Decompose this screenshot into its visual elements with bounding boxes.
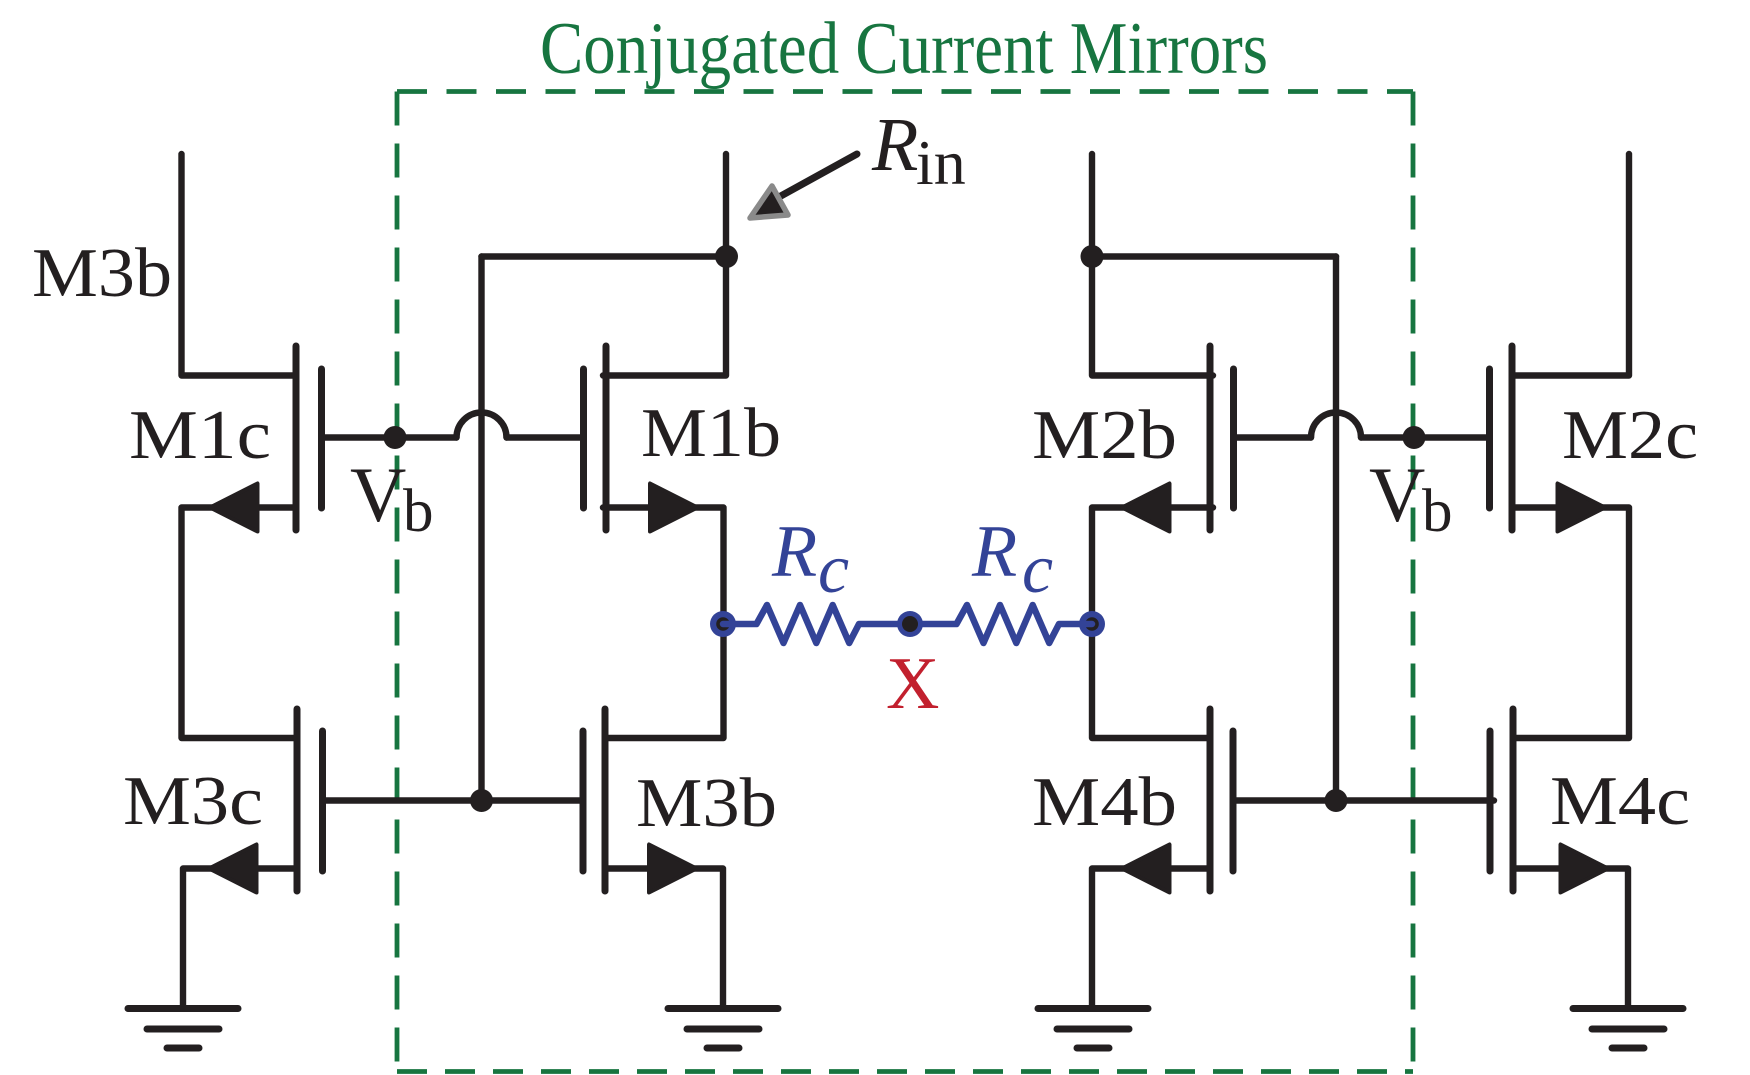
wire: top horizontal from Rin2 node to vertical net xyxy=(1092,253,1336,259)
svg-text:R: R xyxy=(971,511,1017,593)
junction dot: Vb left xyxy=(384,426,407,449)
transistor M4b xyxy=(1207,709,1214,891)
junction dot: Rin node xyxy=(715,245,738,268)
wire: Rin stub and M1b drain xyxy=(603,154,726,376)
wire: M4c source down to ground xyxy=(1516,869,1628,1006)
wire: stub and M2b drain xyxy=(1092,154,1213,376)
wire hop: gate wire over vertical net xyxy=(457,413,507,438)
ground (M4c) xyxy=(1573,1005,1683,1012)
arrow: M2b source (points left) xyxy=(1122,484,1170,532)
svg-text:M4c: M4c xyxy=(1550,763,1690,840)
svg-text:V: V xyxy=(1369,451,1425,538)
junction dot: right top node xyxy=(1081,245,1104,268)
wire: M1c-M1b gate wire left part xyxy=(322,434,457,440)
svg-text:M1b: M1b xyxy=(641,395,781,472)
wire hop: gate wire over vertical net right xyxy=(1311,413,1361,438)
resistor Rc right xyxy=(910,605,1092,643)
transistor M1b xyxy=(603,346,610,530)
dashed boundary box: Conjugated Current Mirrors xyxy=(397,92,1413,1072)
arrow: M4b source (points left) xyxy=(1122,845,1170,893)
arrow: M1b source (points right) xyxy=(650,484,698,532)
node terminal: left Rc end xyxy=(710,611,736,637)
transistor M4c xyxy=(1510,709,1517,891)
junction dot: M3c/M3b gate net xyxy=(470,789,493,812)
node X: center tap xyxy=(897,611,923,637)
junction dot: M4b/M4c gate net xyxy=(1325,789,1348,812)
node terminal: right Rc end xyxy=(1079,611,1105,637)
annotation arrow for Rin xyxy=(750,154,857,218)
ground (M3b) xyxy=(668,1005,778,1012)
transistor M2b xyxy=(1207,346,1214,530)
transistor M2c xyxy=(1509,346,1516,530)
svg-text:M3b: M3b xyxy=(636,765,777,842)
arrow: M2c source (points right) xyxy=(1558,484,1606,532)
wire: M2b-M2c gate wire right part xyxy=(1361,434,1490,440)
svg-text:c: c xyxy=(818,531,849,608)
wire: M2b source down through Rc right node to M4b drain xyxy=(1092,508,1213,739)
wire: M1b source down through Rc left node to M3b drain xyxy=(603,508,724,739)
arrow: M3c source (points left) xyxy=(209,845,257,893)
svg-text:R: R xyxy=(871,103,918,187)
wire: vertical net from top node to M4b/M4c gates xyxy=(1333,257,1339,801)
wire: right column drain stub of M2c xyxy=(1515,154,1629,376)
label Vb left xyxy=(350,451,434,545)
wire: M3b source down to ground xyxy=(608,869,723,1006)
transistor labels xyxy=(32,235,1698,842)
wire: M2b-M2c gate wire left part xyxy=(1234,434,1312,440)
svg-text:X: X xyxy=(886,643,939,725)
label Rc right xyxy=(971,511,1053,608)
label Vb right xyxy=(1369,451,1453,545)
label Rc left xyxy=(771,511,849,608)
junction dot: Vb right xyxy=(1403,426,1426,449)
wire: vertical net from top node to M3c/M3b gates xyxy=(478,257,484,801)
transistor M3c xyxy=(294,709,301,891)
svg-text:M2c: M2c xyxy=(1562,397,1698,474)
ground (M4b) xyxy=(1038,1005,1148,1012)
label Rin xyxy=(871,103,966,198)
svg-text:Conjugated Current Mirrors: Conjugated Current Mirrors xyxy=(540,8,1268,90)
arrow: M3b source (points right) xyxy=(649,845,697,893)
resistor Rc left xyxy=(723,605,910,643)
wire: M3c-M3b gate wire xyxy=(323,797,584,803)
svg-text:M2b: M2b xyxy=(1032,397,1177,474)
wire: M4b-M4c gate wire xyxy=(1233,797,1494,803)
svg-text:M3b: M3b xyxy=(32,235,172,312)
ground (M3c) xyxy=(128,1005,238,1012)
wire: M3c source down to ground xyxy=(183,869,297,1006)
transistor M1c xyxy=(293,346,300,530)
transistor M3b xyxy=(602,709,609,891)
svg-text:M4b: M4b xyxy=(1032,764,1177,841)
wire: M2c source down to M4c drain xyxy=(1515,508,1629,739)
arrow: M1c source (points left) xyxy=(210,484,258,532)
wire: left column drain stub of M1c xyxy=(182,154,297,376)
svg-text:in: in xyxy=(916,127,966,198)
svg-text:b: b xyxy=(1422,478,1453,545)
wire: M1c-M1b gate wire right part xyxy=(507,434,584,440)
svg-text:M3c: M3c xyxy=(123,763,263,840)
svg-text:R: R xyxy=(771,511,817,593)
wire: top horizontal from vertical net to Rin node xyxy=(482,253,727,259)
wire: M4b source down to ground xyxy=(1092,869,1207,1006)
svg-text:c: c xyxy=(1022,531,1053,608)
wire: M1c source down to M3c drain xyxy=(182,508,298,739)
svg-text:V: V xyxy=(350,451,406,538)
arrow: M4c source (points right) xyxy=(1561,845,1609,893)
svg-text:M1c: M1c xyxy=(129,397,271,474)
svg-text:b: b xyxy=(403,478,434,545)
